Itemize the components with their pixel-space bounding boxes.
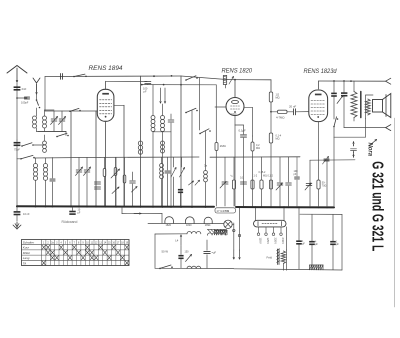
capacitor Cc	[277, 182, 283, 184]
svg-text:10: 10	[86, 242, 89, 244]
arrow L-ant	[36, 84, 38, 94]
node top line x171	[171, 75, 173, 77]
svg-text:4-7MΩ: 4-7MΩ	[276, 116, 284, 120]
svg-text:RENS 1823d: RENS 1823d	[304, 68, 338, 75]
components row mid y180: capacitor Ca	[222, 181, 228, 183]
wire tuning row y111	[45, 110, 98, 112]
wire resistor to node	[270, 102, 272, 112]
capacitor Ch with arrow	[324, 158, 329, 160]
svg-text:11: 11	[91, 242, 94, 244]
capacitor electrolytic 2	[309, 241, 315, 243]
mains switch	[159, 268, 161, 270]
svg-text:110 V: 110 V	[259, 238, 263, 245]
svg-text:0,15-2: 0,15-2	[259, 171, 266, 174]
resistor Rd	[260, 180, 263, 189]
wire top line to 1820	[181, 76, 228, 80]
svg-text:G 321 und G 321 L: G 321 und G 321 L	[369, 161, 386, 251]
mains wire 2	[239, 207, 241, 250]
wire x124 vertical	[123, 105, 125, 206]
wire y127 to fork	[344, 127, 386, 129]
switch S8	[185, 79, 187, 81]
svg-text:MΩ: MΩ	[276, 138, 280, 141]
wire x140 vertical	[140, 76, 142, 206]
switch S5	[56, 136, 58, 138]
wire row y157 right part	[100, 156, 199, 158]
transformer primary with core	[208, 233, 226, 235]
wire x300 from bus	[298, 207, 300, 214]
capacitor 100pF antenna	[24, 96, 29, 98]
svg-text:10 nF: 10 nF	[23, 212, 30, 216]
svg-text:2a: 2a	[51, 242, 54, 244]
arrow heater feed	[134, 213, 141, 215]
wire field to bottom	[286, 250, 288, 270]
svg-text:6: 6	[69, 242, 71, 244]
wire L4 leads	[152, 85, 154, 116]
svg-text:½: ½	[231, 174, 234, 178]
coil L-osc small	[43, 141, 47, 145]
wire corner x271 down	[270, 80, 272, 92]
wire x225 stub	[225, 85, 227, 89]
switch S6 band	[20, 158, 22, 160]
arrow tone	[337, 96, 343, 104]
switch S3 top	[73, 76, 75, 78]
arrow L4 tap	[180, 235, 182, 245]
resistor grid leak 4-7Mohm	[278, 110, 288, 113]
earth ground symbol	[16, 215, 18, 221]
node x351 on plate line	[350, 80, 352, 82]
wire x71 vertical	[70, 111, 72, 206]
coil L2 leads	[35, 158, 37, 164]
mains terminal circles	[233, 229, 235, 231]
resistor Rc	[251, 180, 254, 189]
capacitor 1uF mains	[204, 250, 210, 252]
resistor Rb	[232, 180, 235, 189]
wire x327 vertical	[326, 160, 328, 206]
wire y214 link	[300, 213, 342, 215]
wire x344 down	[343, 97, 345, 128]
node coupling	[270, 111, 272, 113]
capacitor padding	[50, 178, 55, 180]
capacitor chassis 1/2uF	[69, 211, 75, 213]
node x344 on plate line	[343, 80, 345, 82]
wire link IF	[153, 131, 171, 133]
grid leads fork	[160, 88, 162, 103]
heater loop tube 1820 second	[186, 217, 195, 224]
wire U1 anode to coupling cap	[106, 80, 147, 82]
wire x342 vertical	[341, 214, 343, 270]
wire x261 vertical	[261, 157, 263, 180]
coil L7	[160, 164, 164, 168]
arrow pencil pickup	[369, 140, 377, 147]
arrow fuse	[186, 255, 192, 262]
speaker cone	[383, 94, 391, 118]
wire x365 to y137	[365, 119, 367, 138]
wire x181 vertical	[180, 76, 182, 206]
resistor R1	[103, 169, 106, 177]
arrow grid cap	[229, 77, 234, 85]
coil L2 RF	[33, 164, 37, 168]
svg-text:19: 19	[126, 242, 129, 244]
trimmer capacitor CT1	[76, 169, 82, 171]
svg-text:1820: 1820	[186, 224, 192, 227]
wire y160 right	[310, 159, 355, 161]
arrow Ci	[305, 183, 311, 190]
capacitor electrolytic 3	[330, 241, 336, 243]
resistor R2	[114, 168, 117, 176]
svg-text:Nora: Nora	[366, 143, 372, 157]
coil L8 osc	[138, 141, 142, 145]
arrow Cc	[276, 184, 282, 191]
heater loop tube 1894	[204, 217, 212, 223]
field coil transformer core	[277, 249, 280, 251]
svg-text:12: 12	[95, 242, 98, 244]
resistor comb HT	[310, 264, 324, 266]
switch S1 wave-band 75pF branch	[14, 142, 21, 144]
node U2 plate	[234, 79, 236, 81]
wire x334 down to switch	[333, 97, 335, 119]
svg-text:70Ω: 70Ω	[322, 184, 327, 187]
speaker LS driver	[373, 100, 383, 113]
wire rectifier right down	[286, 224, 289, 226]
wire heater feed	[121, 207, 123, 214]
svg-text:13: 13	[99, 242, 102, 244]
svg-text:Feld: Feld	[267, 256, 273, 260]
wire x310 vertical	[309, 160, 311, 206]
wire x87 vertical	[86, 157, 88, 169]
potentiometer arrow C7	[132, 187, 138, 193]
svg-text:pF: pF	[294, 173, 297, 176]
wire coil bottoms	[36, 128, 38, 132]
capacitor Cd	[286, 182, 292, 184]
capacitor C9 block	[178, 189, 183, 191]
resistor Re	[269, 180, 272, 189]
svg-text:RENS 1820: RENS 1820	[222, 67, 253, 74]
antenna symbol	[7, 66, 27, 74]
switch S11 arrow	[180, 168, 185, 178]
capacitor Ce small	[295, 176, 300, 178]
tube U1 RENS 1894	[97, 89, 114, 121]
wire S1a to coil	[33, 144, 44, 146]
svg-text:µF: µF	[336, 243, 339, 246]
svg-text:MΩ: MΩ	[276, 96, 280, 100]
wire U2 grid top	[234, 80, 236, 98]
heater line	[148, 222, 224, 224]
capacitor C-ant 2nF	[14, 86, 21, 88]
svg-text:17: 17	[117, 242, 120, 244]
grid stopper resistor hatched	[223, 76, 226, 85]
capacitor IF tune	[168, 119, 174, 121]
svg-text:MΩ: MΩ	[263, 174, 267, 177]
antenna coil L1a	[33, 116, 37, 120]
wire primary top	[155, 233, 187, 235]
resistor 1/2 Mohm anode load	[269, 92, 272, 102]
svg-text:75pF: 75pF	[14, 148, 20, 152]
capacitor Cg block	[341, 92, 347, 94]
svg-text:µF: µF	[78, 211, 81, 214]
svg-text:220 V: 220 V	[274, 238, 278, 245]
wire coil L1b top	[44, 110, 46, 116]
svg-text:Schalter: Schalter	[23, 241, 35, 245]
wire y137 link	[334, 136, 366, 138]
arrow trimmer	[189, 181, 194, 185]
resistor R3	[123, 175, 126, 183]
svg-text:0,1-2: 0,1-2	[268, 174, 274, 177]
svg-text:1820: 1820	[166, 224, 172, 227]
svg-text:7: 7	[74, 242, 76, 244]
switch position table	[22, 240, 130, 266]
svg-text:100pF: 100pF	[21, 101, 29, 105]
svg-text:2nF: 2nF	[22, 87, 27, 91]
svg-text:4: 4	[61, 242, 63, 244]
speaker cone mouth bar	[385, 95, 387, 117]
trimmer capacitor CT2	[84, 169, 90, 171]
coil L9 osc	[161, 141, 165, 145]
wire left vertical power	[154, 234, 156, 268]
bus junction dots	[16, 206, 18, 208]
svg-text:MΩ: MΩ	[256, 147, 260, 150]
capacitor tone Cf block	[331, 93, 337, 95]
wire antenna lower	[16, 140, 18, 206]
resistor 0.1-4 Mohm	[269, 133, 272, 143]
capacitor coupling 20nF	[293, 109, 295, 115]
wire U1 grid side	[114, 104, 124, 106]
page fold line right	[394, 118, 396, 307]
node antenna tap	[17, 97, 27, 99]
resistor 0.2Mohm top	[251, 142, 254, 151]
capacitor blocking top-left	[60, 74, 62, 80]
wire x334 to bus	[333, 137, 335, 206]
coil L3 leads	[45, 158, 47, 164]
potentiometer R4 arrow	[112, 187, 119, 194]
svg-text:µF: µF	[302, 243, 305, 246]
wire vertical x45	[44, 77, 46, 112]
wire x192 vertical	[191, 111, 193, 207]
svg-text:15: 15	[108, 242, 111, 244]
svg-text:240 V: 240 V	[281, 238, 285, 245]
coil L4 IF	[151, 116, 155, 120]
output transformer primary winding	[351, 92, 357, 118]
bottom HT line	[234, 269, 342, 270]
terminal fork L-antenna	[33, 78, 40, 83]
heater loop tube 1820	[165, 217, 174, 224]
wire y84 corner down	[215, 85, 217, 143]
svg-text:17 G3/5₩: 17 G3/5₩	[216, 209, 229, 213]
capacitor 100pF coupling	[145, 81, 151, 83]
svg-text:Rückwand: Rückwand	[62, 220, 78, 224]
svg-text:TA: TA	[23, 261, 27, 265]
svg-text:0,1: 0,1	[240, 176, 244, 179]
svg-text:=µF: =µF	[212, 250, 217, 254]
wire transformer bottom	[353, 118, 355, 122]
chassis bus bar	[17, 205, 214, 208]
node x334 on plate line	[333, 80, 335, 82]
wire U1 cathode down	[105, 121, 107, 206]
antenna coil L1b	[43, 116, 47, 120]
svg-text:RENS 1894: RENS 1894	[89, 65, 124, 72]
switch S12 tone	[333, 126, 335, 128]
capacitor block stack	[95, 181, 101, 183]
coil L5 IF	[161, 116, 165, 120]
svg-text:Lang: Lang	[23, 256, 30, 260]
svg-text:0,1µF: 0,1µF	[239, 129, 246, 133]
voltage divider comb below lamp	[215, 229, 228, 231]
wire U1 anode lead up	[105, 81, 107, 89]
capacitor Ci	[306, 183, 312, 185]
variable capacitor CV2	[59, 118, 65, 120]
rectifier tube RGN horizontal	[254, 220, 287, 227]
wire x334 lower	[333, 127, 335, 137]
wire CV2 leads	[61, 111, 63, 118]
switch S9 lower	[199, 133, 201, 135]
switch S4 tuning	[69, 110, 71, 112]
svg-text:Mittel: Mittel	[23, 251, 31, 255]
svg-text:8: 8	[78, 242, 80, 244]
potentiometer arrow R2	[111, 169, 120, 178]
wire secondary to speaker	[367, 95, 369, 99]
wire antenna down-lead	[16, 83, 18, 140]
svg-text:125 V: 125 V	[266, 238, 270, 245]
capacitor C7	[130, 180, 136, 182]
wire bus to earth cap	[16, 207, 18, 211]
wire plate supply top-left	[45, 75, 181, 78]
svg-text:3: 3	[56, 242, 58, 244]
svg-text:2MΩ: 2MΩ	[220, 144, 226, 148]
wire U2 side leads	[215, 106, 226, 108]
rectifier leads to bus	[255, 207, 257, 220]
table X marks	[42, 245, 46, 249]
wire U2 plate line	[228, 79, 271, 81]
switch S10 arrow	[171, 168, 176, 178]
tube U2 RENS 1820	[226, 98, 244, 116]
wire CV1 leads	[53, 111, 55, 118]
output transformer core	[360, 92, 362, 118]
field coil winding	[281, 251, 285, 264]
wire x199 vertical	[199, 78, 201, 130]
tube U3 RENS 1823d	[309, 90, 328, 122]
capacitor 10nF to earth	[14, 211, 21, 213]
variable capacitor CV1	[51, 118, 57, 120]
wire x216 upper	[216, 130, 218, 143]
wire x79 vertical	[78, 157, 80, 169]
switch S7	[185, 112, 187, 114]
wire x116 vertical	[115, 157, 117, 206]
antenna lead-in arrow	[16, 68, 18, 82]
svg-text:50 W: 50 W	[162, 250, 169, 254]
wire row y157 mid	[210, 156, 300, 158]
arrow Ca	[220, 182, 226, 189]
wire fuse vertical	[180, 246, 182, 255]
phono jack marker	[353, 142, 355, 148]
secondary coil bottom	[187, 266, 201, 268]
svg-text:pF: pF	[144, 89, 147, 93]
resistor Rf 50ohm	[317, 180, 320, 189]
svg-text:1: 1	[43, 242, 45, 244]
svg-text:16: 16	[112, 242, 115, 244]
bus label box 17 G3/5W	[215, 208, 236, 213]
mains plug arrows	[233, 250, 235, 259]
wire plate line right	[319, 80, 386, 82]
fuse block	[178, 255, 183, 257]
svg-text:µF: µF	[315, 243, 318, 246]
wire lamp to mains	[232, 223, 234, 225]
svg-text:18: 18	[121, 242, 124, 244]
capacitor electrolytic 1	[296, 240, 302, 242]
svg-text:14: 14	[104, 242, 107, 244]
wire grid return y84	[142, 84, 217, 86]
wire U2 cathode down	[234, 125, 236, 206]
svg-text:1-2: 1-2	[254, 175, 258, 178]
voltage selector taps	[258, 227, 260, 233]
capacitor Cb 0.1	[241, 181, 247, 183]
svg-text:20 nF: 20 nF	[289, 105, 296, 109]
switch S1a	[21, 145, 23, 147]
switch S2 L-ant	[36, 99, 38, 101]
dial lamp	[224, 220, 232, 228]
svg-text:Kurz: Kurz	[23, 246, 30, 250]
svg-text:9: 9	[82, 242, 84, 244]
coil L3 RF	[43, 164, 47, 168]
wire U3 anode up	[318, 81, 320, 89]
output transformer secondary loop	[366, 95, 374, 119]
terminal fork top right	[386, 78, 391, 84]
svg-text:1820: 1820	[231, 113, 237, 116]
svg-text:150: 150	[185, 251, 190, 254]
resistor 2Mohm top	[215, 143, 218, 151]
capacitor C8	[165, 170, 170, 172]
svg-text:L4: L4	[175, 239, 179, 243]
coil L6 small	[204, 171, 208, 175]
wire secondary bottom	[155, 267, 234, 269]
wire to antenna coil	[36, 108, 38, 116]
node top line	[153, 75, 155, 77]
heater winding L4 coil	[187, 232, 201, 234]
wire L5 leads	[162, 104, 164, 116]
wire band row y158	[34, 156, 100, 159]
svg-text:1894: 1894	[205, 224, 211, 227]
secondary winding zigzag	[365, 99, 370, 115]
svg-text:5: 5	[65, 242, 67, 244]
wire x96 vertical	[95, 111, 97, 206]
wire heater drop	[161, 213, 163, 223]
arrow trimmer 2	[195, 180, 200, 185]
svg-text:2: 2	[47, 242, 49, 244]
wire bottom tuning row	[38, 131, 66, 133]
terminal fork lower right	[386, 125, 391, 131]
wire x216 vertical	[215, 151, 217, 207]
